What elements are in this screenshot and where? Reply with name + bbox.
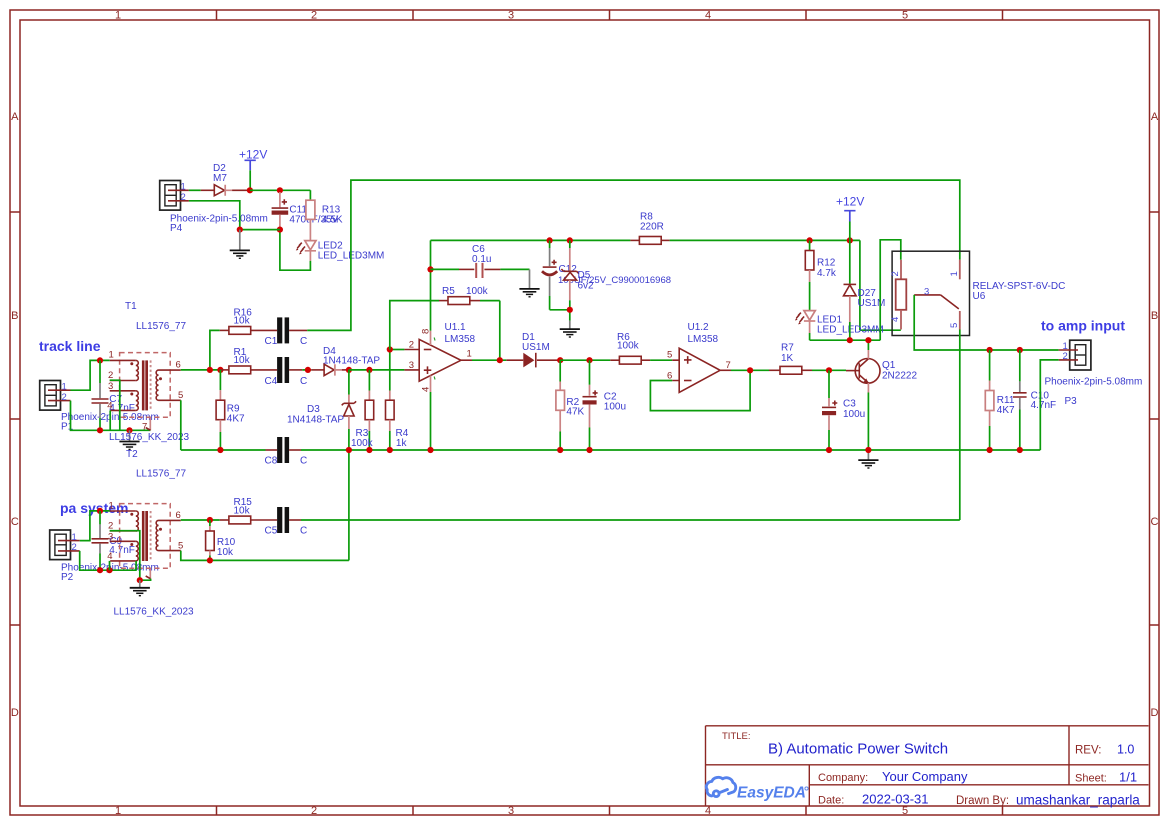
svg-text:1K: 1K <box>781 353 794 364</box>
svg-text:220R: 220R <box>640 221 664 232</box>
junction (499.8,360.2) <box>497 357 503 363</box>
resistor R4 <box>386 350 409 451</box>
svg-text:1.0: 1.0 <box>1117 743 1134 757</box>
junction (220.4,369.9) <box>217 367 223 373</box>
svg-text:4: 4 <box>705 10 711 22</box>
svg-text:LM358: LM358 <box>688 334 719 345</box>
ground (T1) <box>119 430 139 449</box>
resistor R3 <box>351 370 374 450</box>
svg-text:10k: 10k <box>234 505 251 516</box>
connector P3 <box>1045 340 1143 407</box>
svg-text:1/1: 1/1 <box>1119 770 1137 785</box>
svg-text:C4: C4 <box>265 376 278 387</box>
+12V net flag (P4) <box>239 147 267 190</box>
junction (430.5,269.4) <box>427 266 433 272</box>
wire P2 pin2 to ground rail <box>80 551 137 570</box>
svg-text:Q1: Q1 <box>882 360 896 371</box>
resistor R9 <box>216 370 245 450</box>
svg-text:1: 1 <box>72 532 77 543</box>
svg-text:1: 1 <box>949 271 960 276</box>
relay U6 <box>890 251 1066 335</box>
junction (100,360.4) <box>97 357 103 363</box>
svg-text:track line: track line <box>39 338 101 354</box>
wire U1.1 output <box>461 359 472 361</box>
svg-text:A: A <box>1151 111 1159 123</box>
diode D3 <box>287 370 356 450</box>
svg-text:4.5K: 4.5K <box>322 214 343 225</box>
svg-text:0.1u: 0.1u <box>472 254 491 265</box>
junction (139.8,580.2) <box>137 577 143 583</box>
svg-text:1: 1 <box>467 349 472 360</box>
svg-text:100k: 100k <box>466 286 489 297</box>
svg-text:+12V: +12V <box>836 195 864 209</box>
svg-text:2: 2 <box>409 340 414 351</box>
junction (1019.8,450) <box>1017 447 1023 453</box>
svg-text:1: 1 <box>181 182 186 193</box>
ground (P4) <box>230 230 250 259</box>
junction (348.9,369.9) <box>346 367 352 373</box>
wire T2 pin4 stubs <box>110 561 137 570</box>
svg-text:4.7nF: 4.7nF <box>109 545 135 556</box>
svg-text:Phoenix-2pin-5.08mm: Phoenix-2pin-5.08mm <box>170 214 268 225</box>
transformer T1 <box>107 301 189 443</box>
junction (750.1,370.3) <box>747 367 753 373</box>
svg-text:2: 2 <box>72 542 77 553</box>
svg-text:U6: U6 <box>973 291 986 302</box>
svg-text:2: 2 <box>1063 351 1068 362</box>
svg-text:1: 1 <box>115 10 121 22</box>
svg-text:P2: P2 <box>61 572 74 583</box>
svg-text:1N4148-TAP: 1N4148-TAP <box>323 355 380 366</box>
frame column labels top <box>115 10 908 22</box>
svg-text:1: 1 <box>62 382 67 393</box>
resistor R13 <box>306 200 343 240</box>
svg-text:6: 6 <box>176 510 181 521</box>
svg-text:LL1576_KK_2023: LL1576_KK_2023 <box>114 607 195 618</box>
svg-text:D: D <box>1151 707 1159 719</box>
svg-text:2: 2 <box>108 521 113 532</box>
svg-text:Sheet:: Sheet: <box>1075 773 1107 785</box>
resistor R12 <box>805 240 837 310</box>
wire main row <box>181 369 220 371</box>
svg-text:6: 6 <box>176 360 181 371</box>
svg-text:to amp input: to amp input <box>1041 318 1125 334</box>
svg-text:1N4148-TAP: 1N4148-TAP <box>287 414 344 425</box>
svg-text:4.7k: 4.7k <box>817 268 837 279</box>
op-amp U1.1 <box>404 240 475 450</box>
svg-text:R5: R5 <box>442 286 455 297</box>
wire U1.2 feedback loop <box>650 370 750 410</box>
svg-text:3: 3 <box>108 532 113 543</box>
junction (549.6,240.4) <box>547 237 553 243</box>
junction (307.9,369.9) <box>305 367 311 373</box>
svg-text:10k: 10k <box>217 547 234 558</box>
junction (209.9,520) <box>207 517 213 523</box>
resistor R2 <box>556 360 585 450</box>
svg-text:100u: 100u <box>604 402 626 413</box>
svg-text:C5: C5 <box>265 526 278 537</box>
svg-text:LM358: LM358 <box>445 334 476 345</box>
svg-text:+12V: +12V <box>239 147 267 161</box>
junction (829,450) <box>826 447 832 453</box>
wire P4 pin2 to ground <box>189 201 280 230</box>
junction (868.4,340.2) <box>865 337 871 343</box>
svg-text:4: 4 <box>421 387 432 392</box>
svg-text:2: 2 <box>181 192 186 203</box>
svg-text:P4: P4 <box>170 223 183 234</box>
svg-text:M7: M7 <box>213 173 227 184</box>
ground (Q1 emitter) <box>858 450 878 468</box>
junction (849.8,240.4) <box>847 237 853 243</box>
svg-text:US1M: US1M <box>858 298 886 309</box>
svg-text:3: 3 <box>508 10 514 22</box>
capacitor C7 <box>92 360 135 430</box>
wire bottom rail right <box>301 449 1040 451</box>
svg-text:1: 1 <box>109 350 114 361</box>
junction (348.9,450) <box>346 447 352 453</box>
diode D4 <box>311 346 380 376</box>
svg-text:2022-03-31: 2022-03-31 <box>862 792 929 807</box>
svg-text:5: 5 <box>902 10 908 22</box>
svg-text:C: C <box>300 336 307 347</box>
svg-text:4K7: 4K7 <box>997 405 1015 416</box>
junction (829,370.3) <box>826 367 832 373</box>
capacitor C11 <box>272 192 339 230</box>
wire T1 pin5 drop to bottom rail <box>180 400 182 450</box>
junction (849.8,340.2) <box>847 337 853 343</box>
svg-text:pa system: pa system <box>60 500 128 516</box>
svg-text:C: C <box>300 526 307 537</box>
LED LED2 <box>296 241 385 262</box>
svg-text:Phoenix-2pin-5.08mm: Phoenix-2pin-5.08mm <box>1045 376 1143 387</box>
svg-text:100k: 100k <box>617 340 640 351</box>
junction (279.9,229.6) <box>277 227 283 233</box>
svg-text:4.7nF: 4.7nF <box>1031 400 1057 411</box>
svg-text:umashankar_raparla: umashankar_raparla <box>1016 793 1140 808</box>
svg-text:5: 5 <box>902 805 908 817</box>
svg-text:3: 3 <box>924 287 929 298</box>
connector P2 <box>50 530 159 583</box>
ground (D5) <box>560 321 580 337</box>
svg-text:LL1576_77: LL1576_77 <box>136 469 186 480</box>
svg-text:4K7: 4K7 <box>227 413 245 424</box>
junction (209.9,369.9) <box>207 367 213 373</box>
svg-text:REV:: REV: <box>1075 745 1101 757</box>
wire P2 pin1 riser <box>80 511 110 541</box>
svg-text:2: 2 <box>890 271 901 276</box>
svg-text:5: 5 <box>178 390 183 401</box>
diode D1 <box>506 332 560 367</box>
resistor R7 <box>769 343 846 375</box>
svg-text:US1M: US1M <box>522 342 550 353</box>
wire to C11 <box>250 190 311 200</box>
svg-text:2N2222: 2N2222 <box>882 371 917 382</box>
svg-text:8: 8 <box>421 329 432 334</box>
capacitor C10 <box>1013 350 1056 450</box>
wire P3 pin2 to ground rail <box>1040 360 1058 450</box>
svg-text:RELAY-SPST-6V-DC: RELAY-SPST-6V-DC <box>973 281 1066 292</box>
svg-text:1: 1 <box>115 805 121 817</box>
svg-text:2: 2 <box>311 10 317 22</box>
svg-text:EasyEDA: EasyEDA <box>737 785 806 802</box>
wire relay coil bottom rail <box>810 240 901 340</box>
junction (369.4,450) <box>366 447 372 453</box>
junction (989.6,350) <box>987 347 993 353</box>
svg-text:5: 5 <box>667 350 672 361</box>
svg-text:3: 3 <box>409 360 414 371</box>
junction (560.2,360.2) <box>557 357 563 363</box>
junction (989.6,450) <box>987 447 993 453</box>
junction (249.9,190.3) <box>247 187 253 193</box>
wire T1 pin4 drop <box>109 410 111 430</box>
svg-text:100u: 100u <box>843 409 865 420</box>
wire T2 pin2 drop to ground node <box>110 531 140 581</box>
connector P4 <box>160 181 268 235</box>
resistor R5 feedback <box>390 286 500 360</box>
svg-text:C: C <box>300 456 307 467</box>
junction (569.8,240.4) <box>567 237 573 243</box>
svg-text:4: 4 <box>107 401 112 412</box>
capacitor C1 <box>265 317 308 347</box>
svg-text:10k: 10k <box>234 316 251 327</box>
op-amp U1.2 <box>667 322 731 392</box>
svg-text:Drawn By:: Drawn By: <box>956 795 1009 807</box>
wire link rail to bottom rail <box>348 450 350 560</box>
svg-text:TITLE:: TITLE: <box>722 731 751 742</box>
ground (T2) <box>130 580 150 596</box>
wire +V rail <box>431 239 631 241</box>
svg-text:R7: R7 <box>781 343 794 354</box>
svg-text:C3: C3 <box>843 399 856 410</box>
svg-text:U1.1: U1.1 <box>445 322 467 333</box>
capacitor C6 <box>431 244 530 278</box>
resistor R15 <box>220 497 277 524</box>
svg-text:10k: 10k <box>234 355 251 366</box>
junction (100,430.3) <box>97 427 103 433</box>
diode D27 <box>844 240 886 340</box>
junction (389.8,349.5) <box>387 346 393 352</box>
junction (369.4,369.9) <box>366 367 372 373</box>
svg-text:2: 2 <box>62 392 67 403</box>
svg-text:C: C <box>300 376 307 387</box>
svg-text:B) Automatic Power Switch: B) Automatic Power Switch <box>768 741 948 758</box>
svg-text:5: 5 <box>949 323 960 328</box>
wire T2 pin6 row <box>181 519 220 521</box>
title block lines <box>706 726 1149 806</box>
junction (1019.8,350) <box>1017 347 1023 353</box>
capacitor C5 <box>265 507 308 537</box>
svg-text:7: 7 <box>726 360 731 371</box>
wire relay pin5 down to pa row <box>959 330 961 521</box>
frame row labels <box>11 111 1159 719</box>
wire T1 pin2 drop <box>110 380 120 430</box>
capacitor C3 <box>822 370 865 450</box>
junction (589.5,360.2) <box>586 357 592 363</box>
junction (100,510.9) <box>97 508 103 514</box>
junction (809.6,240.4) <box>807 237 813 243</box>
junction (569.8,309.8) <box>567 307 573 313</box>
+12V net flag (relay) <box>836 195 864 241</box>
junction (430.5,450) <box>427 447 433 453</box>
svg-text:Your Company: Your Company <box>882 769 968 784</box>
junction (100,570.2) <box>97 567 103 573</box>
LED LED1 <box>795 311 884 341</box>
transistor Q1 <box>846 340 917 450</box>
capacitor C12 <box>542 240 671 309</box>
svg-text:7: 7 <box>142 422 147 433</box>
wire inverting input row <box>390 349 405 351</box>
svg-text:T1: T1 <box>125 301 137 312</box>
wire C5 to relay pin5 <box>301 519 960 521</box>
svg-text:A: A <box>11 111 19 123</box>
connector P1 <box>40 381 159 433</box>
wire bottom rail left <box>181 449 266 451</box>
svg-text:4: 4 <box>107 551 112 562</box>
junction (868.4,450) <box>865 447 871 453</box>
wire T2 pin5 drop and pa ground rail <box>181 551 349 561</box>
resistor R1 <box>220 347 277 374</box>
svg-text:3: 3 <box>108 381 113 392</box>
svg-text:3: 3 <box>508 805 514 817</box>
svg-text:47K: 47K <box>566 406 584 417</box>
junction (239.8,229.6) <box>237 227 243 233</box>
junction (279.9,190.3) <box>277 187 283 193</box>
zener diode D5 <box>561 240 594 320</box>
svg-text:Company:: Company: <box>818 772 868 784</box>
svg-text:1k: 1k <box>396 438 408 449</box>
wire C1 to top rail <box>307 180 960 330</box>
diode D2 <box>201 163 250 196</box>
svg-text:4: 4 <box>705 805 711 817</box>
svg-text:2: 2 <box>311 805 317 817</box>
transformer T2 <box>107 449 194 618</box>
capacitor C4 <box>265 357 308 387</box>
svg-text:T2: T2 <box>126 449 138 460</box>
svg-text:LL1576_KK_2023: LL1576_KK_2023 <box>109 432 190 443</box>
svg-text:C8: C8 <box>265 456 278 467</box>
svg-text:Date:: Date: <box>818 795 844 807</box>
wire ground node link <box>140 579 151 581</box>
junction (220.4,450) <box>217 447 223 453</box>
resistor R10 <box>206 520 236 560</box>
svg-text:C: C <box>11 516 19 528</box>
junction (129.5,430.3) <box>126 427 132 433</box>
svg-text:B: B <box>1151 310 1158 322</box>
wire relay pin3 to amp row <box>914 295 1058 350</box>
EasyEDA logo <box>706 777 735 796</box>
svg-text:D5: D5 <box>578 270 591 281</box>
resistor R6 <box>610 332 672 364</box>
svg-text:1: 1 <box>109 500 114 511</box>
wire P4 pin1 to D2 <box>189 189 201 191</box>
capacitor C9 <box>92 511 135 570</box>
wire U1.2 output <box>720 369 731 371</box>
svg-text:6v2: 6v2 <box>578 281 595 292</box>
svg-text:LL1576_77: LL1576_77 <box>136 321 186 332</box>
wire P1 pin1 riser <box>71 360 110 390</box>
svg-text:B: B <box>11 310 18 322</box>
junction (109.5,570.2) <box>106 567 112 573</box>
svg-text:P3: P3 <box>1065 396 1078 407</box>
frame column labels bottom <box>115 805 908 817</box>
junction (589.5,450) <box>586 447 592 453</box>
svg-text:C: C <box>1151 516 1159 528</box>
svg-text:4: 4 <box>890 317 901 322</box>
capacitor C8 <box>265 437 308 467</box>
wire branch from main row up to R16 <box>210 330 220 370</box>
svg-text:D: D <box>11 707 19 719</box>
junction (389.8,450) <box>387 447 393 453</box>
svg-text:4.7nF: 4.7nF <box>109 403 135 414</box>
svg-text:C1: C1 <box>265 336 278 347</box>
wire P1 pin2 down to ground rail <box>71 401 151 431</box>
resistor R11 <box>985 350 1015 450</box>
resistor R16 <box>220 307 277 334</box>
junction (560.2,450) <box>557 447 563 453</box>
capacitor C2 <box>583 360 627 450</box>
svg-text:5: 5 <box>178 540 183 551</box>
wire LED2 bottom loop to C11 bottom <box>280 230 311 271</box>
ground (C6) <box>519 269 539 296</box>
svg-text:U1.2: U1.2 <box>688 322 710 333</box>
resistor R8 <box>630 212 669 245</box>
junction (209.9,560.4) <box>207 557 213 563</box>
